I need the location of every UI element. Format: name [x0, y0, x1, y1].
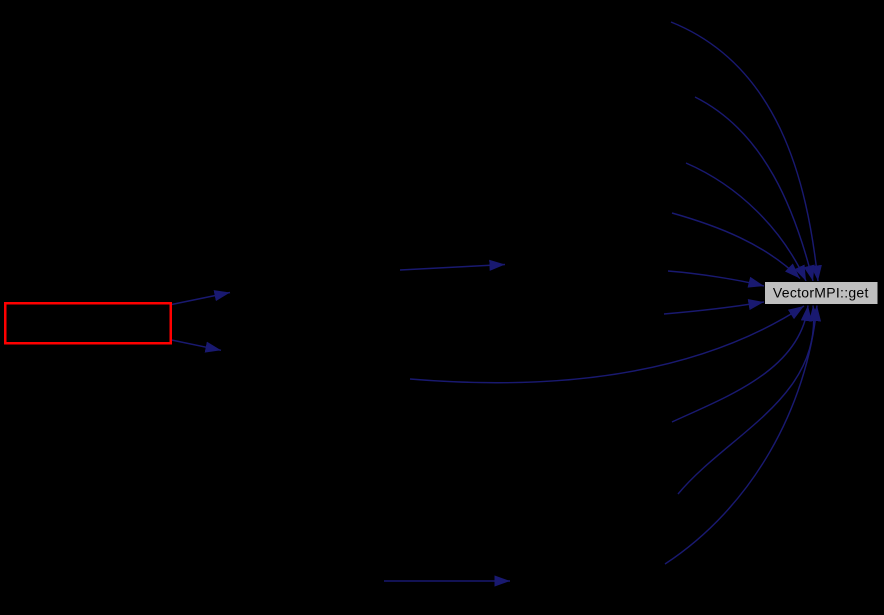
edge left straight lower -> VectorMPI::get: [664, 302, 764, 314]
svg-text:VectorMPI::get: VectorMPI::get: [773, 285, 869, 301]
edge caller1 -> node3 (lower arrow from red box): [172, 340, 222, 350]
edge top curve 2 -> VectorMPI::get: [695, 97, 813, 281]
edge top curve 4 -> VectorMPI::get: [672, 213, 800, 279]
node caller1 (truncated node, red border): [5, 303, 171, 343]
edge caller1 -> node2 (upper arrow from red box): [172, 293, 231, 305]
edge top curve 3 -> VectorMPI::get: [686, 163, 806, 281]
edge top curve 1 -> VectorMPI::get: [671, 22, 818, 281]
edge bottom curve 3 -> VectorMPI::get: [678, 306, 814, 495]
edge left straight upper -> VectorMPI::get: [668, 271, 764, 286]
edge bottom curve 4 -> VectorMPI::get: [665, 306, 817, 565]
edge node4 -> node5 (middle straight arrow): [400, 265, 505, 271]
edge long swoop -> VectorMPI::get: [410, 306, 804, 383]
node VectorMPI::get (current node, grey fill): [765, 282, 879, 305]
edge bottom curve 2 -> VectorMPI::get: [672, 306, 808, 423]
edge node6 -> node7 (bottom straight arrow): [384, 580, 510, 582]
